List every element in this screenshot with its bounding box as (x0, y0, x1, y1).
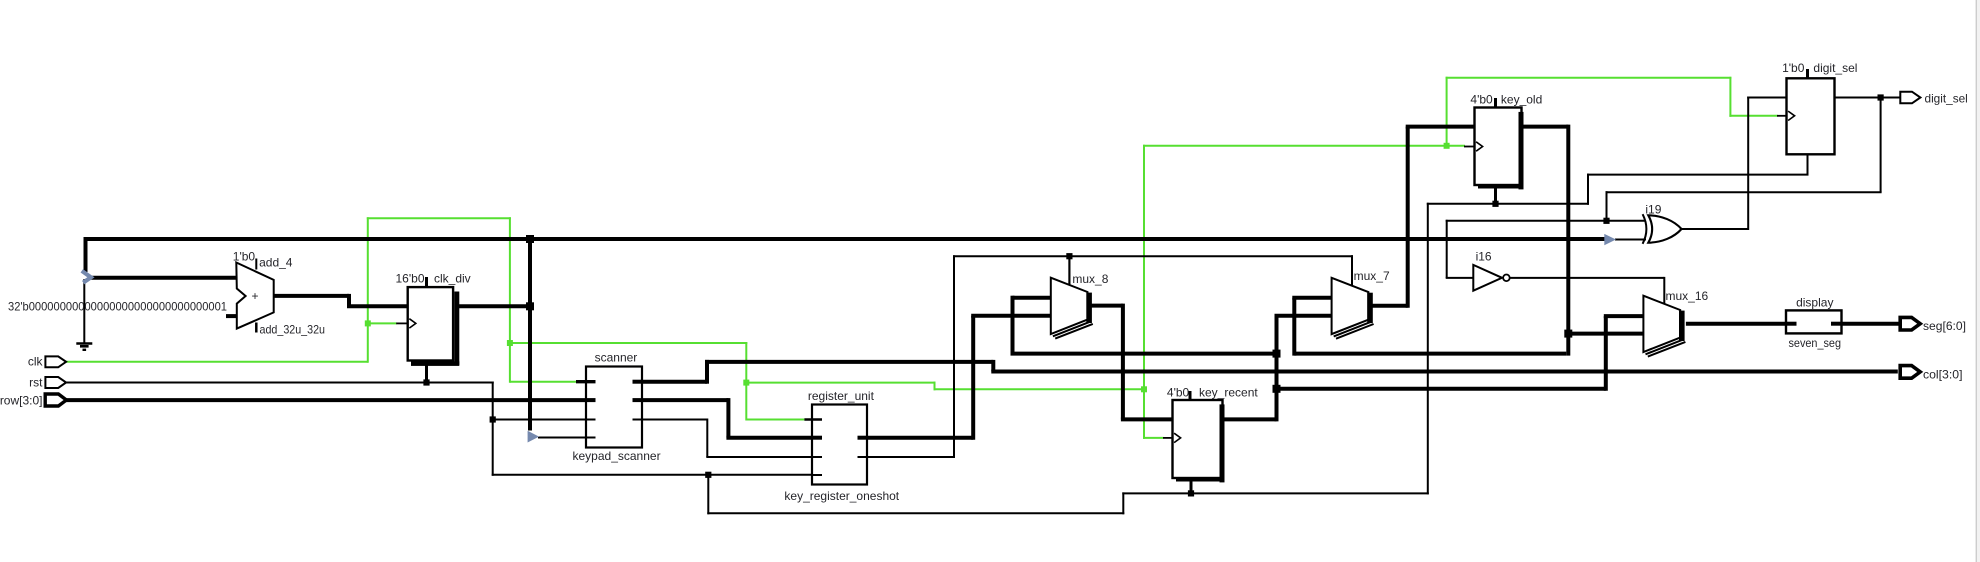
wire key_recent Q riser (1224, 316, 1333, 422)
mux mux_8 (1051, 258, 1093, 339)
svg-text:seven_seg: seven_seg (1789, 336, 1842, 350)
i19 label (1645, 202, 1661, 216)
wire key_recent Q to mux_16 pin1 (1277, 316, 1645, 391)
mux mux_7 (1332, 258, 1374, 339)
svg-text:16'b0: 16'b0 (396, 272, 425, 286)
wire i16 out to mux_16 select (1510, 277, 1665, 305)
green junction dots (365, 143, 1450, 392)
slate arrow into i19 (1604, 234, 1616, 245)
scrollbar track right edge (1976, 0, 1980, 562)
wire key_old Q to mux_7 pin1 and mux_16 pin2 (1292, 125, 1644, 356)
input port rst (29, 375, 66, 389)
clk_div labels (396, 272, 471, 286)
input port clk (28, 355, 66, 369)
register_unit labels (784, 389, 899, 503)
svg-text:+: + (252, 289, 259, 303)
mux_7 label (1354, 269, 1390, 283)
wire mux_7 out to key_old D (1372, 127, 1476, 308)
wire digit_sel Q feedback to i19 and i16 (1446, 97, 1882, 278)
wire i19 out to digit_sel D (1681, 97, 1787, 231)
svg-text:i16: i16 (1476, 250, 1492, 264)
register clk_div (396, 277, 459, 382)
register key_old (1464, 98, 1524, 203)
wire mux_8 out to key_recent D (1091, 304, 1174, 420)
wire ground lead (83, 279, 85, 343)
svg-text:register_unit: register_unit (808, 389, 875, 403)
wire key_recent Q feedback to mux_8 pin1 (1011, 296, 1277, 354)
svg-text:clk_div: clk_div (434, 272, 471, 286)
wire mux_16 out to display (1686, 322, 1796, 326)
svg-text:key_old: key_old (1501, 93, 1542, 107)
svg-text:key_register_oneshot: key_register_oneshot (784, 489, 899, 503)
wire scanner pin4 stub after arrow (538, 437, 595, 439)
i16 label (1476, 250, 1492, 264)
key_old labels (1470, 93, 1542, 107)
svg-text:i19: i19 (1645, 202, 1661, 216)
svg-text:row[3:0]: row[3:0] (0, 393, 43, 407)
wire display out to seg port (1832, 322, 1899, 326)
wire constant to adder pin2 (226, 314, 237, 318)
mux_8 label (1072, 272, 1108, 286)
svg-text:1'b0: 1'b0 (233, 250, 256, 264)
svg-text:4'b0: 4'b0 (1167, 386, 1190, 400)
wire row[3:0] to scanner (66, 398, 595, 402)
mux_16 label (1666, 289, 1709, 303)
module register_unit (key_register_oneshot) (804, 405, 867, 485)
scanner labels (573, 350, 661, 463)
svg-text:keypad_scanner: keypad_scanner (573, 449, 661, 463)
svg-text:add_32u_32u: add_32u_32u (260, 323, 326, 337)
digit_sel labels (1782, 61, 1857, 75)
display labels (1789, 295, 1842, 350)
svg-text:4'b0: 4'b0 (1470, 93, 1493, 107)
wire i19 lower input stub after arrow (1615, 239, 1646, 241)
slate arrow at counter corner (82, 271, 91, 283)
mux mux_16 (1643, 296, 1685, 357)
module display (seven_seg) (1786, 310, 1842, 333)
wire rst net (66, 174, 1809, 515)
svg-text:clk: clk (28, 355, 44, 369)
svg-text:display: display (1796, 295, 1833, 309)
output port digit_sel (1900, 92, 1968, 106)
svg-text:32'b00000000000000000000000000: 32'b00000000000000000000000000000001 (8, 300, 227, 314)
key_recent labels (1167, 386, 1258, 400)
wire clk net from port (66, 77, 1778, 439)
ground (76, 344, 92, 350)
svg-text:mux_8: mux_8 (1072, 272, 1108, 286)
svg-text:mux_16: mux_16 (1666, 289, 1709, 303)
output port col[3:0] (1900, 366, 1962, 382)
register digit_sel (1777, 69, 1835, 175)
svg-text:col[3:0]: col[3:0] (1923, 368, 1963, 382)
svg-text:rst: rst (29, 375, 43, 389)
svg-text:mux_7: mux_7 (1354, 269, 1390, 283)
constant 32'b0...01 (8, 300, 227, 314)
wire scanner out3 to register_unit pin3 (634, 419, 822, 458)
svg-text:digit_sel: digit_sel (1925, 92, 1968, 106)
module scanner (keypad_scanner) (576, 367, 642, 448)
svg-text:1'b0: 1'b0 (1782, 61, 1805, 75)
adder labels (233, 250, 325, 337)
svg-text:scanner: scanner (595, 350, 638, 364)
input port row[3:0] (0, 393, 66, 407)
wire select net register_unit out2 to muxes (857, 255, 1353, 458)
wire clk_div Q to junction (458, 304, 532, 308)
svg-text:key_recent: key_recent (1199, 386, 1258, 400)
adder add_4 (add_32u_32u) (236, 259, 273, 333)
slate arrow into scanner pin4 (528, 431, 539, 443)
svg-text:digit_sel: digit_sel (1813, 61, 1857, 75)
svg-text:add_4: add_4 (259, 256, 293, 270)
output port seg[6:0] (1900, 317, 1966, 333)
wire register_unit out1 to mux_8 pin2 (857, 316, 1052, 440)
svg-text:seg[6:0]: seg[6:0] (1923, 319, 1966, 333)
wire digit_sel Q to port (1834, 97, 1900, 99)
wire scanner out2 to register_unit D (634, 398, 822, 438)
wire scanner out1 to col port (634, 360, 1898, 384)
register key_recent (1163, 391, 1225, 493)
wire adder out to clk_div D (274, 294, 408, 306)
wire counter feedback net (clk_div Q loop) (86, 237, 1605, 431)
xor gate i19 (1643, 214, 1682, 244)
inverter i16 (1473, 265, 1509, 291)
